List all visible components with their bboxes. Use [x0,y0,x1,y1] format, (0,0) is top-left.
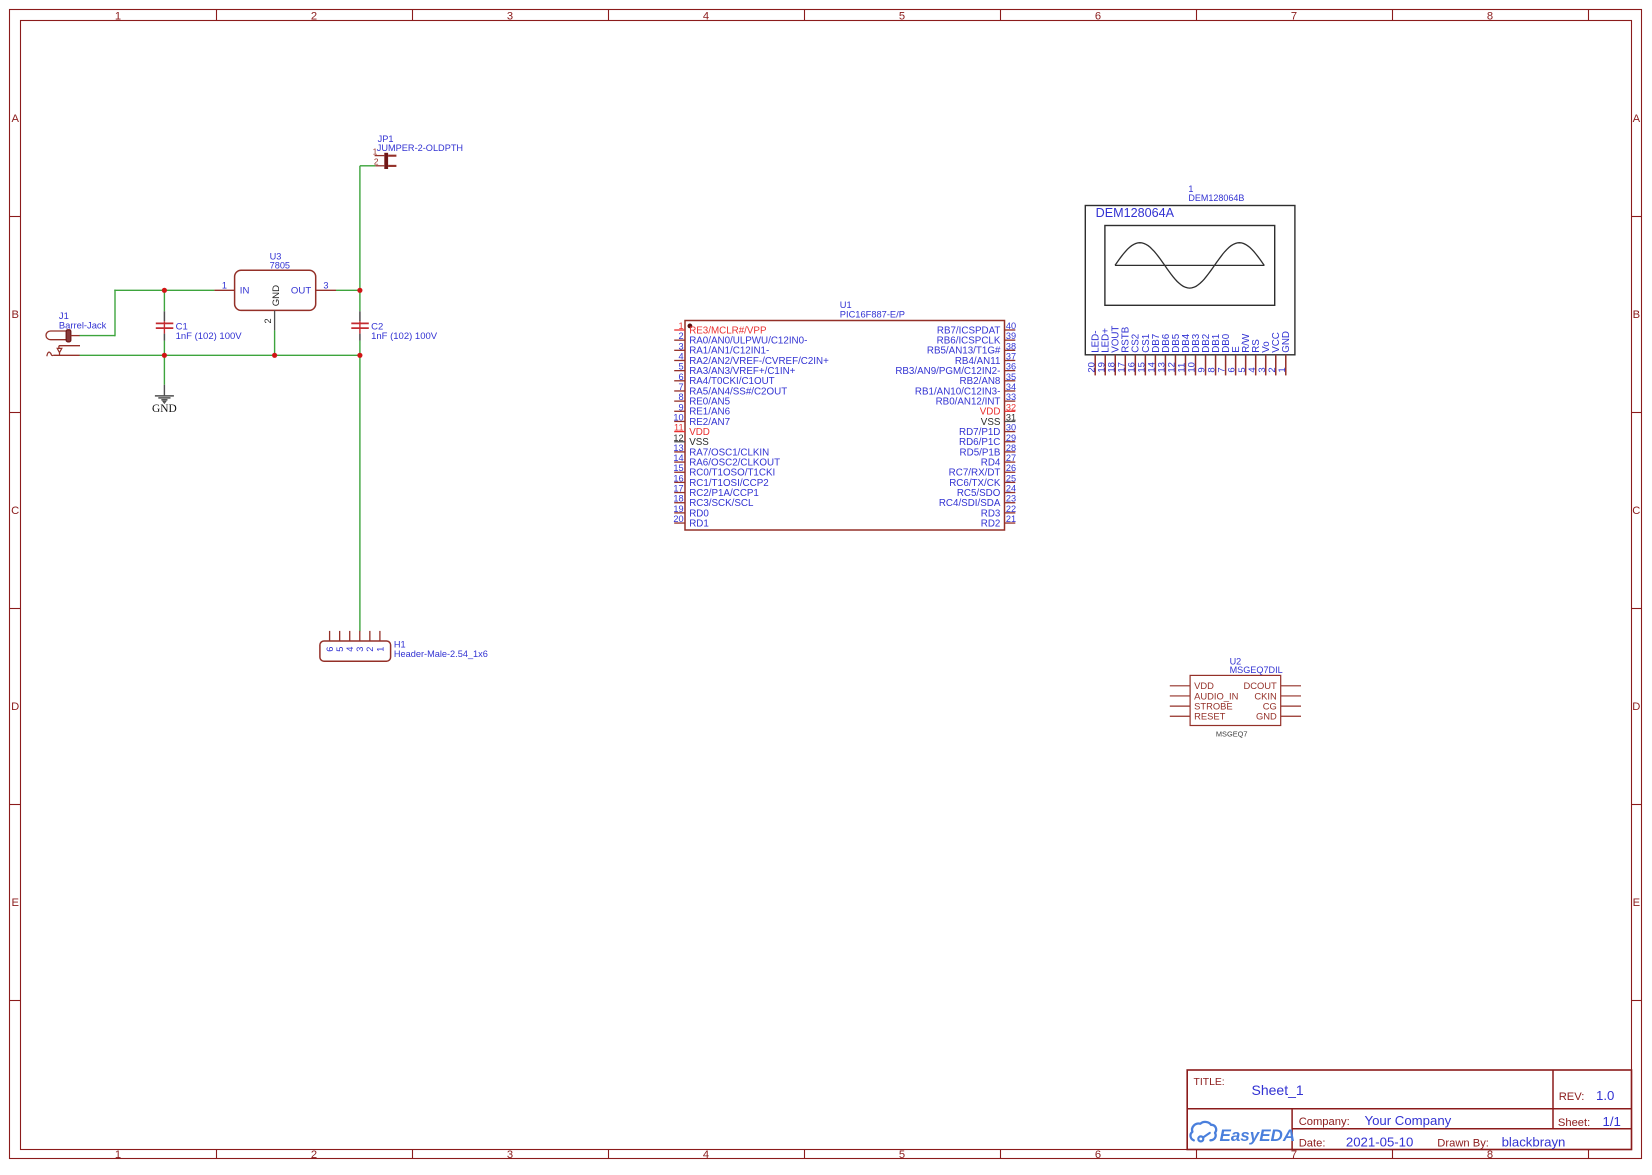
svg-text:1: 1 [678,321,683,331]
svg-text:IN: IN [240,286,250,297]
svg-text:Header-Male-2.54_1x6: Header-Male-2.54_1x6 [394,649,488,659]
svg-text:3: 3 [678,341,683,351]
svg-text:MSGEQ7DIL: MSGEQ7DIL [1230,665,1283,675]
svg-text:A: A [11,113,19,125]
svg-text:GND: GND [1281,331,1292,353]
svg-text:GND: GND [1256,711,1277,722]
svg-text:RESET: RESET [1194,711,1226,722]
svg-text:C: C [1632,505,1640,517]
svg-text:7805: 7805 [270,261,290,271]
svg-text:19: 19 [673,504,683,514]
svg-text:Barrel-Jack: Barrel-Jack [59,319,107,330]
svg-text:2021-05-10: 2021-05-10 [1346,1135,1413,1150]
svg-text:Date:: Date: [1299,1138,1326,1150]
svg-text:8: 8 [678,392,683,402]
svg-text:17: 17 [673,484,683,494]
svg-text:C: C [11,505,19,517]
svg-text:5: 5 [335,647,345,652]
svg-text:1: 1 [1277,367,1288,372]
svg-text:B: B [11,309,18,321]
svg-text:13: 13 [673,443,683,453]
svg-text:25: 25 [1006,473,1016,483]
svg-text:A: A [1633,113,1641,125]
svg-text:12: 12 [673,433,683,443]
svg-text:1.0: 1.0 [1596,1088,1614,1103]
svg-text:36: 36 [1006,362,1016,372]
svg-text:40: 40 [1006,321,1016,331]
svg-text:7: 7 [678,382,683,392]
svg-text:D: D [1632,701,1640,713]
svg-text:8: 8 [1487,1149,1493,1161]
svg-text:Company:: Company: [1299,1116,1350,1128]
svg-text:27: 27 [1006,453,1016,463]
svg-text:15: 15 [673,463,683,473]
svg-text:10: 10 [673,412,683,422]
svg-text:6: 6 [678,372,683,382]
svg-text:8: 8 [1487,10,1493,22]
svg-text:9: 9 [678,402,683,412]
svg-text:E: E [11,897,18,909]
svg-text:7: 7 [1291,10,1297,22]
svg-text:5: 5 [899,1149,905,1161]
svg-text:2: 2 [311,1149,317,1161]
svg-text:1: 1 [115,10,121,22]
svg-text:B: B [1633,309,1640,321]
svg-text:RD1: RD1 [689,518,709,529]
svg-text:2: 2 [374,157,379,167]
svg-text:H1: H1 [394,640,406,650]
svg-text:TITLE:: TITLE: [1194,1077,1225,1088]
svg-text:29: 29 [1006,433,1016,443]
svg-text:GND: GND [152,403,177,415]
svg-text:Drawn By:: Drawn By: [1437,1138,1489,1150]
svg-text:32: 32 [1006,402,1016,412]
svg-text:REV:: REV: [1559,1091,1585,1103]
svg-text:4: 4 [678,351,683,361]
svg-text:26: 26 [1006,463,1016,473]
svg-text:E: E [1633,897,1640,909]
svg-text:5: 5 [899,10,905,22]
svg-text:6: 6 [1095,10,1101,22]
svg-text:blackbrayn: blackbrayn [1502,1135,1566,1150]
svg-text:2: 2 [365,647,375,652]
svg-text:34: 34 [1006,382,1016,392]
svg-text:1: 1 [222,281,227,291]
svg-text:11: 11 [674,423,684,433]
svg-text:16: 16 [673,473,683,483]
svg-text:4: 4 [703,1149,709,1161]
svg-text:5: 5 [678,362,683,372]
svg-text:33: 33 [1006,392,1016,402]
svg-text:EasyEDA: EasyEDA [1220,1126,1296,1145]
svg-text:3: 3 [355,647,365,652]
svg-text:1: 1 [375,647,385,652]
svg-text:23: 23 [1006,494,1016,504]
svg-text:U1: U1 [840,300,852,310]
svg-text:31: 31 [1006,412,1016,422]
svg-text:D: D [11,701,19,713]
svg-text:2: 2 [678,331,683,341]
svg-text:2: 2 [263,318,273,323]
svg-text:RD2: RD2 [981,518,1001,529]
svg-text:6: 6 [325,647,335,652]
svg-text:30: 30 [1006,423,1016,433]
svg-text:18: 18 [673,494,683,504]
svg-text:3: 3 [507,10,513,22]
svg-text:1: 1 [373,146,378,156]
svg-text:37: 37 [1006,351,1016,361]
svg-text:Your Company: Your Company [1365,1113,1452,1128]
svg-text:14: 14 [673,453,683,463]
svg-text:4: 4 [345,647,355,652]
svg-text:3: 3 [507,1149,513,1161]
svg-text:3: 3 [323,281,328,291]
svg-text:1/1: 1/1 [1603,1114,1621,1129]
svg-text:DEM128064B: DEM128064B [1188,193,1244,203]
svg-text:7: 7 [1291,1149,1297,1161]
svg-text:2: 2 [311,10,317,22]
svg-text:1nF (102) 100V: 1nF (102) 100V [371,331,438,342]
svg-text:OUT: OUT [291,286,311,297]
svg-text:21: 21 [1006,514,1016,524]
svg-text:22: 22 [1006,504,1016,514]
svg-text:38: 38 [1006,341,1016,351]
svg-text:GND: GND [271,285,282,306]
svg-text:39: 39 [1006,331,1016,341]
svg-text:JUMPER-2-OLDPTH: JUMPER-2-OLDPTH [377,143,463,153]
svg-text:MSGEQ7: MSGEQ7 [1216,729,1248,738]
svg-text:35: 35 [1006,372,1016,382]
svg-text:24: 24 [1006,484,1016,494]
svg-text:Sheet:: Sheet: [1558,1117,1590,1129]
svg-text:4: 4 [703,10,709,22]
svg-text:DEM128064A: DEM128064A [1096,206,1175,220]
svg-text:Sheet_1: Sheet_1 [1252,1082,1304,1098]
svg-text:28: 28 [1006,443,1016,453]
svg-text:PIC16F887-E/P: PIC16F887-E/P [840,310,905,320]
svg-text:1nF (102) 100V: 1nF (102) 100V [176,331,243,342]
svg-text:6: 6 [1095,1149,1101,1161]
svg-text:1: 1 [115,1149,121,1161]
svg-text:20: 20 [673,514,683,524]
